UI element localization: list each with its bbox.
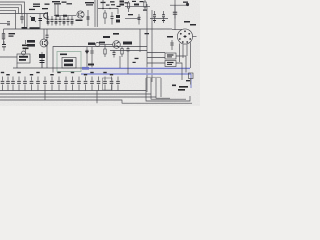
capacitor xyxy=(64,77,68,91)
wire xyxy=(0,10,16,29)
IC box outline xyxy=(53,47,147,73)
capacitor xyxy=(6,74,10,91)
capacitor xyxy=(171,40,174,50)
capacitor xyxy=(103,72,107,91)
label xyxy=(42,8,48,9)
capacitor xyxy=(7,22,10,25)
wire xyxy=(0,2,25,29)
label xyxy=(145,33,150,34)
label xyxy=(64,59,73,62)
label xyxy=(33,4,40,5)
signal wire blue drop xyxy=(190,74,192,88)
label xyxy=(106,5,110,6)
resistor xyxy=(104,48,106,57)
wire xyxy=(100,44,113,46)
capacitor xyxy=(67,16,70,26)
wire xyxy=(98,9,118,15)
wire xyxy=(147,62,165,64)
wire xyxy=(0,5,22,14)
wire xyxy=(44,91,46,101)
label xyxy=(133,62,136,63)
wire xyxy=(0,23,10,25)
transistor Q1 xyxy=(30,16,36,22)
label xyxy=(9,36,14,37)
capacitor xyxy=(20,14,23,24)
label xyxy=(120,4,125,6)
label xyxy=(101,2,106,3)
label xyxy=(60,54,67,56)
capacitor xyxy=(36,72,40,91)
wire xyxy=(54,5,56,17)
node xyxy=(109,8,110,9)
label xyxy=(103,36,110,38)
label xyxy=(186,80,190,81)
wire riser tick xyxy=(146,76,161,78)
capacitor xyxy=(46,29,49,43)
CRT pin xyxy=(186,41,188,43)
capacitor xyxy=(71,16,74,26)
bus wire 1 xyxy=(0,93,151,95)
wire xyxy=(43,29,45,39)
wire xyxy=(179,44,181,63)
capacitor xyxy=(57,72,61,91)
signal wire blue B xyxy=(81,73,191,75)
label xyxy=(64,64,73,67)
capacitor xyxy=(59,16,62,26)
label xyxy=(135,58,139,59)
wire riser xyxy=(156,78,170,98)
signal band tint xyxy=(90,69,190,73)
label xyxy=(110,1,115,2)
capacitor xyxy=(153,11,156,23)
transistor Q3 xyxy=(40,39,48,47)
signal wire (blue glow) xyxy=(88,67,190,69)
label xyxy=(140,1,144,2)
capacitor xyxy=(39,19,43,21)
label xyxy=(9,33,16,34)
wire xyxy=(104,45,106,49)
CRT pin xyxy=(180,33,182,35)
label H-DRIVE xyxy=(99,42,105,44)
label xyxy=(30,27,40,29)
wire xyxy=(147,57,165,59)
wire xyxy=(125,6,140,8)
capacitor xyxy=(138,14,141,25)
wire xyxy=(172,29,182,31)
capacitor xyxy=(84,74,88,91)
wire xyxy=(190,43,192,69)
wire xyxy=(0,8,19,14)
capacitor xyxy=(116,77,120,91)
label xyxy=(27,40,35,43)
diode xyxy=(86,47,89,68)
wire riser xyxy=(151,78,186,99)
wire xyxy=(26,14,28,30)
capacitor xyxy=(97,77,101,91)
label xyxy=(88,64,94,66)
node xyxy=(102,8,104,10)
label xyxy=(86,4,93,5)
wire xyxy=(13,67,88,69)
capacitor C2 xyxy=(116,15,120,23)
capacitor xyxy=(51,16,54,26)
wire xyxy=(16,63,18,68)
wire xyxy=(170,4,188,6)
label xyxy=(128,14,133,15)
wire xyxy=(47,14,49,25)
wire xyxy=(57,5,59,17)
capacitor xyxy=(23,77,27,91)
label xyxy=(88,43,95,45)
wire xyxy=(54,15,76,17)
net label (blue) xyxy=(82,67,89,70)
wire xyxy=(127,53,129,74)
component box xyxy=(103,78,113,90)
amplifier box U1 (green) xyxy=(57,52,81,72)
CRT pin xyxy=(182,41,184,43)
wire xyxy=(140,6,150,8)
wire xyxy=(41,63,43,68)
label xyxy=(67,3,73,4)
wire xyxy=(150,18,168,20)
wire riser xyxy=(146,78,190,101)
transistor Q2 xyxy=(77,11,84,18)
wire xyxy=(176,63,182,80)
capacitor xyxy=(91,47,94,68)
label xyxy=(190,24,196,26)
inner box xyxy=(62,58,76,69)
CRT pin xyxy=(184,30,186,32)
capacitor xyxy=(1,72,5,91)
wire xyxy=(110,50,147,52)
CRT socket xyxy=(177,29,192,44)
label xyxy=(27,44,35,47)
resistor xyxy=(104,10,106,24)
wire xyxy=(146,4,148,92)
capacitor xyxy=(11,77,15,91)
signal wire blue A xyxy=(88,67,190,69)
capacitor xyxy=(50,74,54,91)
capacitor C30 xyxy=(178,87,188,90)
wire xyxy=(192,36,196,38)
resistor xyxy=(127,1,129,12)
wire xyxy=(4,28,173,30)
CRT pin xyxy=(188,33,190,35)
label xyxy=(45,4,50,5)
resistor xyxy=(189,73,194,85)
wire xyxy=(46,42,48,68)
ground rail xyxy=(0,90,146,92)
capacitor xyxy=(47,16,50,26)
video box 2 xyxy=(165,61,176,67)
wire xyxy=(119,56,121,68)
wire xyxy=(0,56,17,58)
capacitor xyxy=(110,74,114,91)
label xyxy=(54,3,61,4)
capacitor xyxy=(90,72,94,91)
capacitor xyxy=(2,41,6,51)
wire xyxy=(174,0,176,30)
wire xyxy=(182,44,184,58)
CRT center xyxy=(184,35,187,38)
label xyxy=(172,85,176,87)
label xyxy=(111,4,115,5)
label xyxy=(52,1,60,2)
label xyxy=(113,33,119,35)
label xyxy=(33,6,40,7)
transformer core xyxy=(95,0,97,27)
wire xyxy=(186,44,188,56)
capacitor xyxy=(87,17,90,19)
scan noise (decorative) xyxy=(0,0,1,1)
bus wire 3 xyxy=(0,100,192,103)
label xyxy=(22,27,28,29)
wire xyxy=(176,56,186,73)
capacitor C1 xyxy=(111,12,114,25)
node xyxy=(186,3,189,6)
resistor xyxy=(22,40,29,53)
wire xyxy=(151,10,153,82)
video box 1 xyxy=(165,53,176,59)
connector xyxy=(44,12,48,20)
capacitor xyxy=(55,16,58,26)
label box xyxy=(39,52,45,68)
label xyxy=(117,6,121,7)
label xyxy=(134,4,139,6)
transistor Q4 xyxy=(113,41,121,49)
CRT pin xyxy=(179,38,181,40)
label xyxy=(123,42,132,45)
label xyxy=(183,2,188,3)
label xyxy=(85,2,94,3)
capacitor xyxy=(173,5,177,18)
label xyxy=(132,1,136,2)
capacitor xyxy=(162,11,165,23)
wire xyxy=(125,18,140,20)
wire xyxy=(0,13,48,15)
bus wire 2 xyxy=(0,96,156,98)
capacitor xyxy=(43,77,47,91)
label xyxy=(76,20,83,22)
capacitor xyxy=(17,72,21,91)
label xyxy=(62,2,67,3)
wire xyxy=(3,29,5,45)
capacitor xyxy=(77,77,81,91)
CRT pin xyxy=(189,38,191,40)
label xyxy=(120,1,125,3)
resistor xyxy=(2,34,5,40)
wire xyxy=(147,52,165,54)
label box xyxy=(17,51,30,63)
capacitor xyxy=(63,16,66,26)
capacitor xyxy=(113,50,116,58)
resistor xyxy=(63,15,67,17)
wire riser xyxy=(160,78,162,97)
capacitor xyxy=(127,47,130,54)
wire xyxy=(139,29,141,52)
label xyxy=(125,2,129,3)
label xyxy=(143,10,147,11)
resistor xyxy=(121,47,123,57)
connector pin xyxy=(96,43,100,47)
label xyxy=(29,9,35,10)
label xyxy=(167,36,173,38)
wire xyxy=(96,91,98,104)
resistor xyxy=(144,0,146,10)
signal wire (blue glow) xyxy=(81,73,191,75)
capacitor xyxy=(30,74,34,91)
label xyxy=(184,21,190,23)
resistor xyxy=(56,15,60,17)
wire xyxy=(87,10,89,26)
wire xyxy=(102,0,104,9)
capacitor xyxy=(71,72,75,91)
wire xyxy=(39,14,41,30)
